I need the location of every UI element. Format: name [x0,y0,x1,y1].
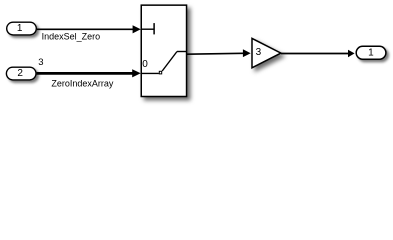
outport block 1 [356,46,386,59]
switch output stub [177,51,187,53]
switch pivot square [159,71,161,74]
switch lever (diagonal) [162,52,177,72]
gain block (triangle) [252,38,281,67]
arrowhead into outport [348,50,355,58]
svg-text:3: 3 [38,57,43,68]
arrowhead into gain [243,49,251,57]
wire from switch to gain [187,52,243,55]
svg-text:3: 3 [256,47,262,58]
switch threshold marker (top input) [142,28,155,30]
svg-text:0: 0 [142,59,148,70]
thick vector wire from inport 2 to switch [37,72,133,75]
svg-text:IndexSel_Zero: IndexSel_Zero [42,32,101,42]
switch block body [141,5,186,96]
inport block 2 [6,67,36,80]
wire from gain to outport [281,53,348,55]
svg-text:1: 1 [17,23,23,34]
svg-text:ZeroIndexArray: ZeroIndexArray [51,78,114,88]
inport block 1 [7,22,37,35]
switch lower input stub [142,72,159,74]
wire from inport 1 to switch [37,28,133,30]
arrowhead into switch input 1 [133,25,141,33]
svg-text:1: 1 [368,47,374,58]
arrowhead (wide) into switch input 2 [132,69,141,77]
svg-text:2: 2 [17,68,23,79]
